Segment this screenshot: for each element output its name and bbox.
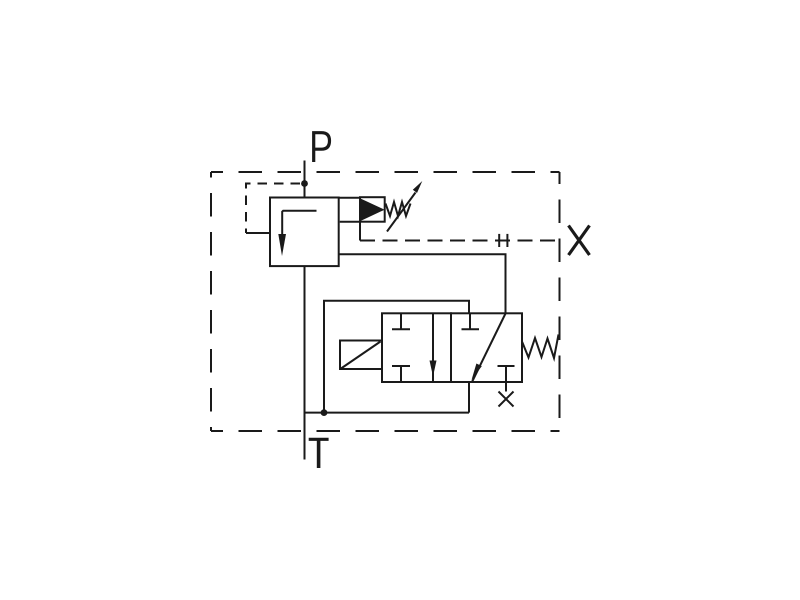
wire: pilot loop from tank node up and over to valve (324, 301, 469, 413)
adjustable spring (zigzag) (386, 202, 411, 216)
wire: bottom branch from main line to valve (305, 412, 470, 414)
closed port X mark (499, 392, 514, 407)
pos2 blocked port T (top) (462, 313, 480, 329)
node: P pilot junction (301, 180, 308, 187)
wire: P supply line (304, 161, 306, 198)
wire: directional valve bottom port down to branch (468, 382, 470, 413)
pos1 blocked port T (bottom) (392, 366, 410, 382)
port T label (309, 439, 329, 468)
solenoid diagonal (341, 342, 381, 369)
pos1 straight flow line (432, 313, 434, 382)
relief valve main body U1 (270, 198, 339, 267)
enclosure boundary left edge (dashed) (210, 172, 212, 431)
adjustment arrow head (413, 181, 423, 193)
directional valve position 1 square (382, 313, 451, 382)
pilot line from node to relief valve spring side (dashed) (246, 184, 300, 234)
pos2 diagonal flow line (472, 314, 506, 383)
port P label (314, 133, 330, 162)
pos1 blocked port T (top) (392, 313, 410, 329)
relief valve internal arrowhead (278, 234, 286, 256)
pilot drain stub below poppet box (359, 222, 361, 241)
pilot poppet cone (filled) (361, 199, 385, 221)
enclosure boundary right edge (dashed) (559, 172, 561, 431)
directional valve position 2 square (451, 313, 522, 382)
wire: relief valve body to pilot cone (bottom) (340, 221, 360, 223)
wire: relief valve to tank line (main vertical) (304, 266, 306, 459)
solenoid box (340, 341, 382, 370)
return spring (522, 335, 559, 359)
relief valve internal flow path (282, 211, 316, 235)
pos1 flow arrowhead (430, 361, 437, 377)
pilot line to port X (dashed) (360, 240, 559, 242)
wire: relief valve outlet to directional valve pilot port (339, 254, 506, 313)
pos2 diagonal flow arrowhead (472, 364, 482, 381)
wire: pilot line stub into relief valve (246, 232, 270, 234)
enclosure boundary top edge (dashed) (211, 171, 560, 173)
wire: relief valve body to pilot cone (top) (339, 197, 360, 199)
pos2 drain stub (505, 382, 507, 392)
node: tank side junction (321, 409, 328, 416)
adjustment arrow shaft (387, 193, 416, 232)
pos2 blocked port T (bottom) (498, 366, 515, 382)
port X label (569, 226, 590, 256)
plugged connection tick 1 (498, 234, 500, 247)
enclosure boundary bottom edge (dashed) (211, 430, 560, 432)
plugged connection tick 2 (506, 234, 508, 247)
pilot poppet box (360, 197, 385, 222)
